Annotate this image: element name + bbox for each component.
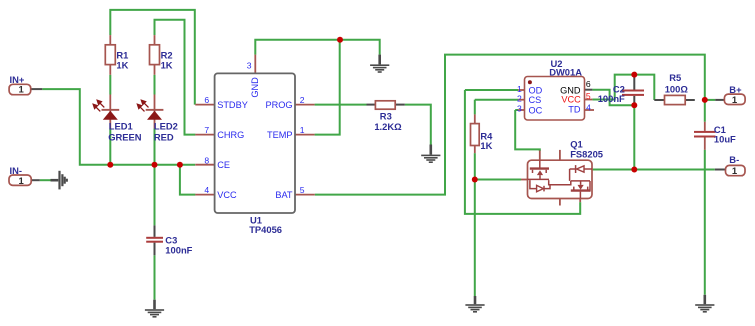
svg-text:VCC: VCC bbox=[561, 95, 581, 105]
svg-text:R3: R3 bbox=[380, 110, 392, 121]
svg-text:STDBY: STDBY bbox=[217, 100, 248, 110]
svg-text:IN-: IN- bbox=[10, 165, 23, 176]
svg-text:7: 7 bbox=[204, 125, 209, 135]
svg-text:BAT: BAT bbox=[275, 190, 293, 200]
svg-text:1K: 1K bbox=[480, 140, 492, 151]
svg-text:PROG: PROG bbox=[265, 100, 292, 110]
svg-text:3: 3 bbox=[517, 104, 522, 114]
svg-text:TP4056: TP4056 bbox=[249, 224, 282, 235]
svg-text:100nF: 100nF bbox=[598, 93, 625, 104]
svg-text:TD: TD bbox=[568, 104, 581, 114]
svg-text:1.2KΩ: 1.2KΩ bbox=[374, 121, 402, 132]
svg-text:1: 1 bbox=[300, 125, 305, 135]
svg-text:B-: B- bbox=[729, 154, 739, 165]
svg-text:6: 6 bbox=[586, 79, 591, 89]
svg-text:GREEN: GREEN bbox=[108, 131, 142, 142]
svg-text:1: 1 bbox=[732, 95, 738, 106]
svg-text:DW01A: DW01A bbox=[549, 66, 582, 77]
svg-text:1: 1 bbox=[19, 176, 25, 187]
svg-text:R5: R5 bbox=[669, 72, 681, 83]
svg-text:RED: RED bbox=[154, 131, 174, 142]
svg-text:GND: GND bbox=[250, 77, 260, 98]
svg-text:OD: OD bbox=[529, 85, 543, 95]
svg-text:B+: B+ bbox=[729, 84, 742, 95]
svg-text:1: 1 bbox=[19, 85, 25, 96]
svg-text:1: 1 bbox=[517, 84, 522, 94]
svg-text:OC: OC bbox=[529, 105, 543, 115]
svg-text:5: 5 bbox=[300, 185, 305, 195]
svg-text:1: 1 bbox=[732, 166, 738, 177]
svg-text:LED1: LED1 bbox=[109, 121, 133, 132]
svg-text:1K: 1K bbox=[116, 59, 128, 70]
svg-text:4: 4 bbox=[204, 185, 209, 195]
svg-text:LED2: LED2 bbox=[154, 121, 178, 132]
svg-text:2: 2 bbox=[517, 94, 522, 104]
svg-text:4: 4 bbox=[586, 103, 591, 113]
svg-text:8: 8 bbox=[204, 155, 209, 165]
svg-text:5: 5 bbox=[586, 91, 591, 101]
svg-text:FS8205: FS8205 bbox=[570, 149, 603, 160]
svg-text:TEMP: TEMP bbox=[267, 130, 293, 140]
svg-text:CS: CS bbox=[529, 95, 542, 105]
svg-text:2: 2 bbox=[300, 95, 305, 105]
svg-text:100Ω: 100Ω bbox=[665, 84, 689, 95]
svg-text:CHRG: CHRG bbox=[217, 130, 244, 140]
svg-text:VCC: VCC bbox=[217, 190, 237, 200]
svg-text:IN+: IN+ bbox=[10, 74, 25, 85]
svg-text:100nF: 100nF bbox=[165, 245, 192, 256]
svg-text:CE: CE bbox=[217, 160, 230, 170]
svg-text:1K: 1K bbox=[161, 59, 173, 70]
svg-text:3: 3 bbox=[247, 60, 252, 70]
svg-text:10uF: 10uF bbox=[714, 134, 736, 145]
svg-text:6: 6 bbox=[204, 95, 209, 105]
